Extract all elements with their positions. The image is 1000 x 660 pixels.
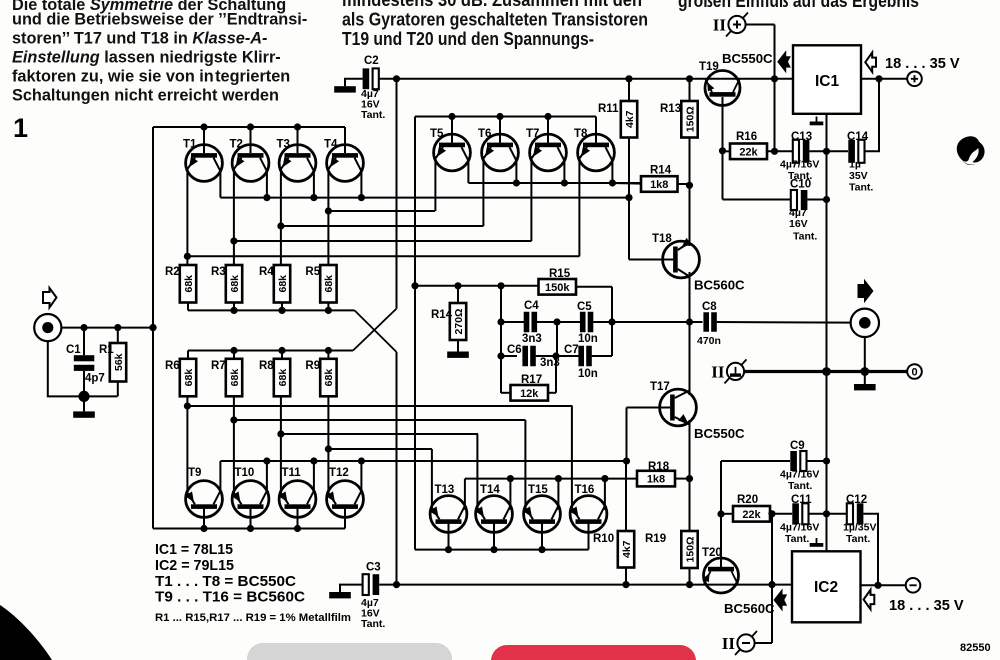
node R16/C13/supply bbox=[771, 148, 778, 155]
wire base rail T13-T16 bbox=[415, 549, 589, 551]
wire R11 to T18 base bbox=[628, 138, 630, 260]
wire R10 top bbox=[625, 461, 627, 531]
wire rail R15 left bbox=[415, 285, 539, 287]
node rail 350 bbox=[230, 347, 237, 354]
resistor R1 bbox=[99, 343, 126, 382]
wire C10 right bbox=[807, 199, 826, 201]
svg-text:1µ/35V: 1µ/35V bbox=[843, 522, 877, 534]
node rail/II- bbox=[768, 581, 775, 588]
svg-text:Tant.: Tant. bbox=[788, 480, 812, 492]
capacitor C9 bbox=[790, 451, 806, 471]
wire collector T2 bbox=[266, 171, 268, 197]
resistor R15 bbox=[539, 268, 577, 295]
wire collector rail T13-T16 bbox=[465, 478, 637, 480]
wire base bus T5-8/T13-16 bbox=[414, 117, 416, 550]
arrow at IC2 right (white) bbox=[864, 590, 875, 609]
node base T10 bbox=[247, 525, 254, 532]
svg-text:T20: T20 bbox=[702, 547, 722, 559]
wire R20 left bbox=[721, 513, 733, 515]
node R14b top bbox=[454, 282, 461, 289]
wire R2 bottom bbox=[187, 303, 189, 311]
node collector T16 bbox=[601, 475, 608, 482]
svg-text:82550: 82550 bbox=[960, 642, 991, 654]
svg-text:R6: R6 bbox=[165, 360, 180, 372]
svg-text:68k: 68k bbox=[277, 275, 289, 293]
svg-text:BC550C: BC550C bbox=[694, 426, 745, 441]
svg-text:3n3: 3n3 bbox=[522, 333, 542, 345]
wire R14b bottom lead bbox=[457, 340, 459, 352]
arrow into IC2 (black) bbox=[774, 589, 788, 612]
svg-text:II: II bbox=[711, 362, 725, 381]
svg-text:großen Einfluß auf das Ergebni: großen Einfluß auf das Ergebnis bbox=[678, 0, 919, 11]
node input junction bbox=[149, 324, 156, 331]
transistor T6 bbox=[478, 128, 518, 171]
svg-text:68k: 68k bbox=[277, 369, 289, 387]
wire base T11 bbox=[297, 507, 299, 529]
svg-text:II: II bbox=[713, 16, 727, 35]
svg-text:C14: C14 bbox=[847, 131, 869, 143]
wire R9 top bbox=[327, 351, 329, 359]
svg-text:1k8: 1k8 bbox=[647, 474, 665, 486]
resistor R5 bbox=[305, 265, 336, 303]
wire R11 top bbox=[628, 79, 630, 101]
node emitter T11 bbox=[277, 430, 284, 437]
node IC1 out bbox=[875, 75, 882, 82]
capacitor C2 bbox=[363, 68, 379, 89]
wire base T14 bbox=[493, 522, 495, 550]
resistor R9 bbox=[305, 359, 336, 397]
svg-text:68k: 68k bbox=[323, 275, 335, 293]
svg-text:IC2 = 79L15: IC2 = 79L15 bbox=[155, 558, 234, 574]
svg-text:T19 und T20 und den Spannungs-: T19 und T20 und den Spannungs- bbox=[342, 28, 594, 49]
wire R6 top bbox=[187, 351, 189, 359]
wire collector T8 bbox=[611, 161, 613, 183]
node R1/rail bbox=[114, 324, 121, 331]
wire II- lead bbox=[755, 642, 772, 644]
svg-text:1: 1 bbox=[13, 113, 28, 143]
capacitor C8 bbox=[703, 312, 716, 332]
svg-text:68k: 68k bbox=[229, 275, 241, 293]
wire 0V rail bbox=[744, 370, 907, 373]
svg-text:R20: R20 bbox=[737, 494, 758, 506]
wire C3 feed vertical bbox=[396, 352, 398, 585]
svg-text:R11: R11 bbox=[598, 103, 619, 115]
resistor R8 bbox=[259, 359, 290, 397]
terminal 0V bbox=[907, 364, 922, 379]
wire collector rail T9-T12 bbox=[220, 460, 626, 462]
wire C6-C7 bbox=[536, 355, 580, 357]
node base T7 bbox=[544, 113, 551, 120]
svg-text:T10: T10 bbox=[235, 467, 255, 479]
wire base T13 bbox=[448, 522, 450, 550]
wire emitter T5 bbox=[434, 159, 436, 211]
capacitor C10 bbox=[791, 190, 808, 210]
wire II- vertical bbox=[771, 514, 773, 643]
svg-text:R8: R8 bbox=[259, 360, 274, 372]
node C5/C7/R15 bbox=[608, 318, 615, 325]
wire R16 to C13 bbox=[767, 150, 793, 152]
wire -15V rail bbox=[397, 584, 793, 586]
svg-text:22k: 22k bbox=[739, 146, 758, 158]
transistor T9 bbox=[185, 467, 222, 517]
output jack J2 bbox=[851, 309, 879, 337]
page curl mark right bbox=[957, 136, 980, 161]
wire emitter T3 to R4 bbox=[280, 169, 282, 265]
terminal -18-35V bbox=[906, 578, 921, 593]
wire collector T5 bbox=[467, 161, 469, 183]
wire R14 left bbox=[611, 182, 641, 185]
wire emitter T2 to R3 bbox=[233, 169, 235, 265]
svg-text:R1 ... R15,R17 ... R19 = 1% Me: R1 ... R15,R17 ... R19 = 1% Metallfilm bbox=[155, 612, 351, 624]
wire emitter T7 bbox=[530, 159, 532, 241]
svg-text:storen’’ T17 und T18 in Klasse: storen’’ T17 und T18 in Klasse-A- bbox=[12, 30, 267, 48]
svg-text:T9: T9 bbox=[188, 467, 201, 479]
arrow into IC1 (black) bbox=[777, 50, 791, 73]
wire branch C4/C6/R17 bbox=[500, 286, 502, 393]
node C8 left bbox=[686, 318, 693, 325]
wire base T10 bbox=[250, 507, 252, 529]
node emitter T2 bbox=[230, 237, 237, 244]
node C3/lower rail bbox=[393, 581, 400, 588]
svg-text:1k8: 1k8 bbox=[650, 179, 668, 191]
wire base T3 bbox=[297, 127, 299, 153]
node 0V/jack bbox=[860, 367, 869, 376]
svg-text:R9: R9 bbox=[305, 360, 320, 372]
wire T18 collector down bbox=[689, 272, 691, 322]
svg-text:4µ7/16V: 4µ7/16V bbox=[780, 159, 819, 171]
ground C2 bbox=[334, 86, 356, 92]
node rail 350 bbox=[325, 347, 332, 354]
transistor T19 bbox=[699, 61, 740, 106]
wire crossover upper-to-lower bbox=[355, 310, 397, 352]
wire ground bus vertical bbox=[826, 114, 828, 552]
resistor R10 bbox=[593, 531, 634, 568]
transistor T4 bbox=[324, 139, 363, 182]
svg-text:R4: R4 bbox=[259, 266, 274, 278]
wire T17 base vertical bbox=[626, 408, 628, 462]
ground R14b bbox=[447, 352, 469, 358]
resistor R2 bbox=[165, 265, 196, 303]
wire base rail T1-T4 bbox=[153, 126, 345, 128]
node input bus bbox=[149, 324, 156, 331]
svg-text:BC550C: BC550C bbox=[722, 51, 773, 66]
svg-text:150k: 150k bbox=[545, 282, 570, 294]
node C2/supply rail bbox=[393, 75, 400, 82]
wire base T5 bbox=[451, 117, 453, 143]
wire emitter T4 to R5 bbox=[327, 169, 329, 265]
wire rail R6-R9 tops bbox=[188, 350, 353, 352]
wire to C4 bbox=[501, 321, 524, 323]
resistor R14 bbox=[641, 165, 678, 192]
svg-text:R1: R1 bbox=[99, 344, 114, 356]
resistor R16 bbox=[730, 131, 767, 159]
wire collector rail T1-T4 bbox=[220, 197, 629, 199]
node base T9 bbox=[200, 525, 207, 532]
svg-text:18 . . . 35 V: 18 . . . 35 V bbox=[889, 598, 964, 614]
svg-text:Tant.: Tant. bbox=[849, 182, 873, 194]
wire T19 base to C10 bbox=[723, 199, 791, 201]
wire rail T9-T16 emitters bbox=[187, 405, 572, 407]
wire T17 emitter down bbox=[689, 420, 691, 479]
node R18/R19/T17e bbox=[686, 475, 693, 482]
wire emitter T13 bbox=[431, 449, 433, 508]
wire R15/C7 vertical bbox=[611, 287, 613, 356]
wire base rail T9-T12 bbox=[153, 528, 345, 530]
wire R14 right bbox=[678, 183, 690, 185]
node base T11 bbox=[294, 525, 301, 532]
svg-text:12k: 12k bbox=[520, 388, 539, 400]
wire C1 top bbox=[83, 328, 85, 356]
svg-text:Tant.: Tant. bbox=[785, 533, 809, 545]
wire collector T10 bbox=[266, 461, 268, 491]
node collector T10 bbox=[263, 457, 270, 464]
svg-text:R2: R2 bbox=[165, 266, 180, 278]
wire base T8 bbox=[595, 117, 597, 143]
svg-text:T7: T7 bbox=[526, 128, 539, 140]
node IC2 out bbox=[874, 582, 881, 589]
wire base T16 bbox=[588, 522, 590, 550]
wire emitter T8 bbox=[578, 159, 580, 257]
wire R19 top bbox=[689, 479, 691, 531]
resistor R20 bbox=[733, 494, 770, 522]
terminal II ground bbox=[711, 359, 746, 383]
wire emitter T9 bbox=[186, 396, 188, 493]
wire C1 bottom bbox=[83, 371, 85, 396]
svg-text:IC2: IC2 bbox=[814, 579, 838, 596]
svg-text:C7: C7 bbox=[564, 344, 579, 356]
wire collector T13 bbox=[464, 479, 466, 510]
node collector T4 bbox=[358, 194, 365, 201]
svg-text:4µ7/16V: 4µ7/16V bbox=[780, 522, 819, 534]
wire C3 right bbox=[379, 584, 396, 586]
svg-text:T14: T14 bbox=[480, 484, 500, 496]
wire collector rail T5-T8 bbox=[468, 182, 641, 184]
svg-text:T6: T6 bbox=[478, 128, 491, 140]
svg-text:68k: 68k bbox=[183, 369, 195, 387]
wire emitter T10 bbox=[233, 396, 235, 493]
wire collector T4 bbox=[360, 171, 362, 197]
input jack J1 bbox=[34, 314, 61, 341]
capacitor C13 bbox=[793, 140, 810, 163]
transistor T3 bbox=[277, 139, 316, 182]
svg-text:35V: 35V bbox=[849, 170, 868, 182]
wire rail T3-T6 emitters bbox=[281, 225, 484, 227]
wire T18 base bbox=[629, 259, 673, 261]
resistor R6 bbox=[165, 359, 196, 397]
node base T14 bbox=[490, 546, 497, 553]
node R11/T18 base bbox=[625, 194, 632, 201]
node IC1 gnd bbox=[823, 148, 830, 155]
text column left bbox=[12, 0, 307, 105]
svg-text:R3: R3 bbox=[211, 266, 226, 278]
wire 0V ground lead bbox=[864, 372, 866, 385]
transistor T8 bbox=[574, 128, 614, 171]
transistor T11 bbox=[279, 467, 316, 517]
node base T2 bbox=[247, 123, 254, 130]
svg-text:68k: 68k bbox=[183, 275, 195, 293]
svg-text:4k7: 4k7 bbox=[624, 110, 636, 128]
svg-text:56k: 56k bbox=[113, 353, 125, 371]
node rail 310 bbox=[278, 307, 285, 314]
wire R3 bottom bbox=[233, 303, 235, 311]
wire C13-C14 bbox=[809, 150, 848, 152]
node C6 left bbox=[497, 352, 504, 359]
node base bus / R14b bbox=[411, 282, 418, 289]
node R20/C11/rail bbox=[768, 510, 775, 517]
node emitter T4 bbox=[325, 207, 332, 214]
resistor R13 bbox=[660, 101, 698, 138]
svg-text:C6: C6 bbox=[507, 344, 522, 356]
wire base T15 bbox=[541, 522, 543, 550]
wire C5 to C8 bbox=[593, 321, 702, 323]
ground C3 bbox=[329, 592, 351, 598]
svg-text:R5: R5 bbox=[305, 266, 320, 278]
svg-text:II: II bbox=[722, 634, 736, 653]
ground tick IC1 bbox=[810, 117, 824, 126]
wire collector T6 bbox=[515, 161, 517, 183]
wire emitter T6 bbox=[482, 159, 484, 226]
wire emitter T16 bbox=[571, 406, 573, 508]
wire IC2 out to terminal bbox=[861, 584, 906, 586]
wire crossover lower-to-upper bbox=[353, 309, 397, 351]
wire II+ vertical bbox=[774, 25, 776, 152]
node C1/rail bbox=[80, 324, 87, 331]
svg-text:als Gyratoren geschalteten Tra: als Gyratoren geschalteten Transistoren bbox=[342, 9, 648, 30]
node rail 310 bbox=[230, 307, 237, 314]
wire collector T11 bbox=[313, 461, 315, 491]
resistor R7 bbox=[211, 359, 242, 397]
wire C2 feed vertical bbox=[396, 79, 398, 309]
wire R5 bottom bbox=[327, 303, 329, 311]
svg-text:R19: R19 bbox=[645, 533, 666, 545]
wire T20 to C9 bbox=[721, 460, 790, 462]
capacitor C12 bbox=[847, 503, 864, 524]
svg-text:T8: T8 bbox=[574, 128, 588, 140]
node C4 left bbox=[497, 318, 504, 325]
wire R17 left bbox=[501, 392, 511, 394]
regulator IC2 bbox=[792, 551, 861, 622]
ground 0V bbox=[854, 384, 876, 390]
wire R13 top bbox=[689, 79, 691, 101]
transistor T15 bbox=[523, 484, 560, 532]
wire C14 to IC1 out bbox=[865, 79, 879, 152]
wire to C6 bbox=[501, 355, 517, 357]
wire +15V rail bbox=[397, 78, 794, 80]
wire to ground bbox=[83, 396, 85, 411]
svg-text:R14: R14 bbox=[431, 309, 453, 321]
node R13/R14/T18e bbox=[686, 182, 693, 189]
wire collector T14 bbox=[509, 479, 511, 510]
capacitor C6 bbox=[522, 346, 535, 367]
wire rail T2-T7 emitters bbox=[234, 240, 532, 242]
wire jack ground lead bbox=[48, 341, 118, 396]
capacitor C3 bbox=[363, 574, 380, 595]
wire R1 top bbox=[117, 328, 119, 343]
wire input rail bbox=[61, 327, 153, 329]
svg-text:T3: T3 bbox=[277, 139, 290, 151]
svg-text:470n: 470n bbox=[697, 335, 721, 347]
svg-text:R13: R13 bbox=[660, 103, 681, 115]
svg-text:C1: C1 bbox=[66, 344, 81, 356]
capacitor C4 bbox=[524, 312, 537, 333]
svg-text:18 . . . 35 V: 18 . . . 35 V bbox=[885, 56, 960, 72]
svg-text:68k: 68k bbox=[229, 369, 241, 387]
node collector T8 bbox=[609, 179, 616, 186]
node collector T2 bbox=[263, 194, 270, 201]
transistor T18 bbox=[652, 233, 699, 278]
wire T17 base bbox=[627, 407, 671, 409]
wire C8 to output jack bbox=[717, 321, 851, 324]
node R10/rail bbox=[622, 581, 629, 588]
regulator IC1 bbox=[793, 45, 861, 114]
node base T6 bbox=[496, 113, 503, 120]
wire base T7 bbox=[547, 117, 549, 143]
svg-text:Tant.: Tant. bbox=[788, 170, 812, 182]
node R19/rail bbox=[686, 581, 693, 588]
svg-text:IC1: IC1 bbox=[815, 73, 840, 90]
node collector T12 bbox=[358, 457, 365, 464]
wire rail T10-T15 emitters bbox=[234, 419, 526, 421]
transistor T14 bbox=[475, 484, 512, 532]
wire base T12 bbox=[344, 507, 346, 529]
wire rail T1-T8 emitters bbox=[187, 255, 579, 257]
resistor R18 bbox=[637, 461, 675, 486]
node emitter T3 bbox=[277, 222, 284, 229]
svg-text:68k: 68k bbox=[323, 369, 335, 387]
svg-text:Tant.: Tant. bbox=[361, 109, 385, 121]
svg-text:16V: 16V bbox=[789, 218, 808, 230]
wire R13 to T18 bbox=[689, 138, 691, 247]
node C10/gnd bus bbox=[823, 196, 830, 203]
wire C2 right bbox=[379, 78, 396, 80]
svg-text:C4: C4 bbox=[524, 300, 539, 312]
wire C4-C5 bbox=[537, 321, 580, 323]
svg-text:T12: T12 bbox=[329, 467, 349, 479]
resistor R14 (270) bbox=[431, 303, 466, 340]
node base T5 bbox=[448, 113, 455, 120]
ground input bbox=[73, 411, 95, 417]
input arrow bbox=[43, 288, 57, 308]
wire R17 right bbox=[548, 392, 556, 394]
svg-text:C3: C3 bbox=[366, 562, 381, 574]
wire R16 left bbox=[723, 150, 731, 152]
wire rail T4-T5 emitters bbox=[328, 210, 435, 212]
text column middle bbox=[342, 0, 648, 49]
svg-text:22k: 22k bbox=[742, 509, 761, 521]
resistor R19 bbox=[645, 531, 698, 568]
node collector T3 bbox=[310, 194, 317, 201]
node C9/gnd bus bbox=[823, 457, 830, 464]
node collector T11 bbox=[310, 457, 317, 464]
node emitter T10 bbox=[230, 416, 237, 423]
wire C2 ground lead bbox=[345, 79, 363, 86]
svg-text:T4: T4 bbox=[324, 139, 338, 151]
resistor R4 bbox=[259, 265, 290, 303]
svg-text:R14: R14 bbox=[650, 165, 672, 177]
wire collector T7 bbox=[563, 161, 565, 183]
svg-text:4p7: 4p7 bbox=[85, 373, 105, 385]
node collector T6 bbox=[513, 179, 520, 186]
resistor R3 bbox=[211, 265, 242, 303]
wire jack to 0V bbox=[864, 337, 866, 372]
svg-text:C5: C5 bbox=[577, 301, 592, 313]
wire base rail T5-T8 bbox=[415, 116, 596, 118]
wire T19 base spine bbox=[722, 97, 724, 200]
svg-text:T1: T1 bbox=[183, 139, 197, 151]
node base T3 bbox=[294, 123, 301, 130]
svg-text:R10: R10 bbox=[593, 533, 614, 545]
terminal II+ bbox=[713, 13, 748, 37]
